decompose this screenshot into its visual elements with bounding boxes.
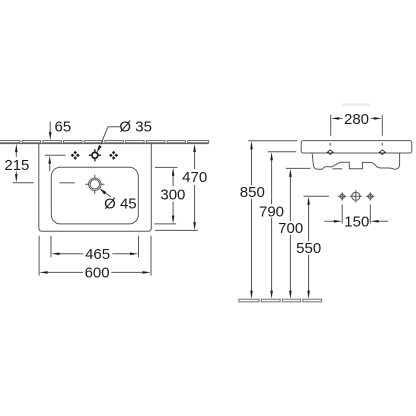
dim 700 — [286, 167, 311, 169]
hidden edge dash — [332, 168, 342, 170]
dim 790 — [268, 151, 297, 153]
leader Ø35 — [101, 127, 121, 145]
svg-text:Ø 45: Ø 45 — [104, 195, 137, 212]
optional tap hole left (diamond cross) — [71, 151, 80, 160]
svg-text:465: 465 — [85, 246, 110, 263]
rim bar — [301, 141, 412, 153]
leader Ø45 — [104, 192, 111, 197]
overflow dash — [59, 182, 74, 184]
svg-text:215: 215 — [4, 157, 29, 174]
dim 300 — [155, 166, 177, 168]
dim 215 — [15, 150, 17, 176]
svg-text:850: 850 — [240, 184, 265, 201]
fixing hole right — [379, 149, 387, 155]
optional tap hole right (diamond cross) — [109, 151, 118, 160]
dim 280 — [331, 115, 383, 136]
basin outer rect (plan) — [39, 144, 152, 232]
dim 470 — [194, 150, 196, 223]
svg-text:280: 280 — [344, 111, 369, 128]
svg-text:150: 150 — [344, 214, 369, 231]
svg-text:65: 65 — [55, 119, 72, 136]
fixing hole left — [326, 149, 334, 155]
wall face line — [0, 143, 209, 145]
dim 600 — [39, 236, 151, 276]
svg-text:700: 700 — [278, 220, 303, 237]
supply connection left (diamond) — [338, 192, 346, 200]
svg-text:Ø 35: Ø 35 — [119, 118, 152, 135]
basin inner bowl — [51, 167, 138, 224]
tap hole Ø35 — [89, 149, 101, 161]
center dashes above fixing holes — [330, 143, 382, 146]
faint smudge — [342, 103, 370, 106]
drain connection (circle) — [350, 190, 362, 202]
svg-text:600: 600 — [85, 265, 110, 282]
basin underside profile — [312, 153, 399, 169]
dim 150 — [342, 205, 370, 224]
svg-text:550: 550 — [296, 240, 321, 257]
svg-text:790: 790 — [259, 203, 284, 220]
svg-text:300: 300 — [160, 186, 185, 203]
svg-text:470: 470 — [182, 169, 207, 186]
dim 850 — [248, 140, 297, 142]
dim 465 — [51, 236, 139, 258]
dim 65 — [49, 122, 51, 135]
dim 550 — [304, 195, 330, 197]
wall tile strip (plan view) — [0, 141, 209, 143]
floor tile strip — [239, 299, 322, 302]
supply connection right (diamond) — [366, 192, 374, 200]
drain Ø45 — [85, 175, 104, 194]
